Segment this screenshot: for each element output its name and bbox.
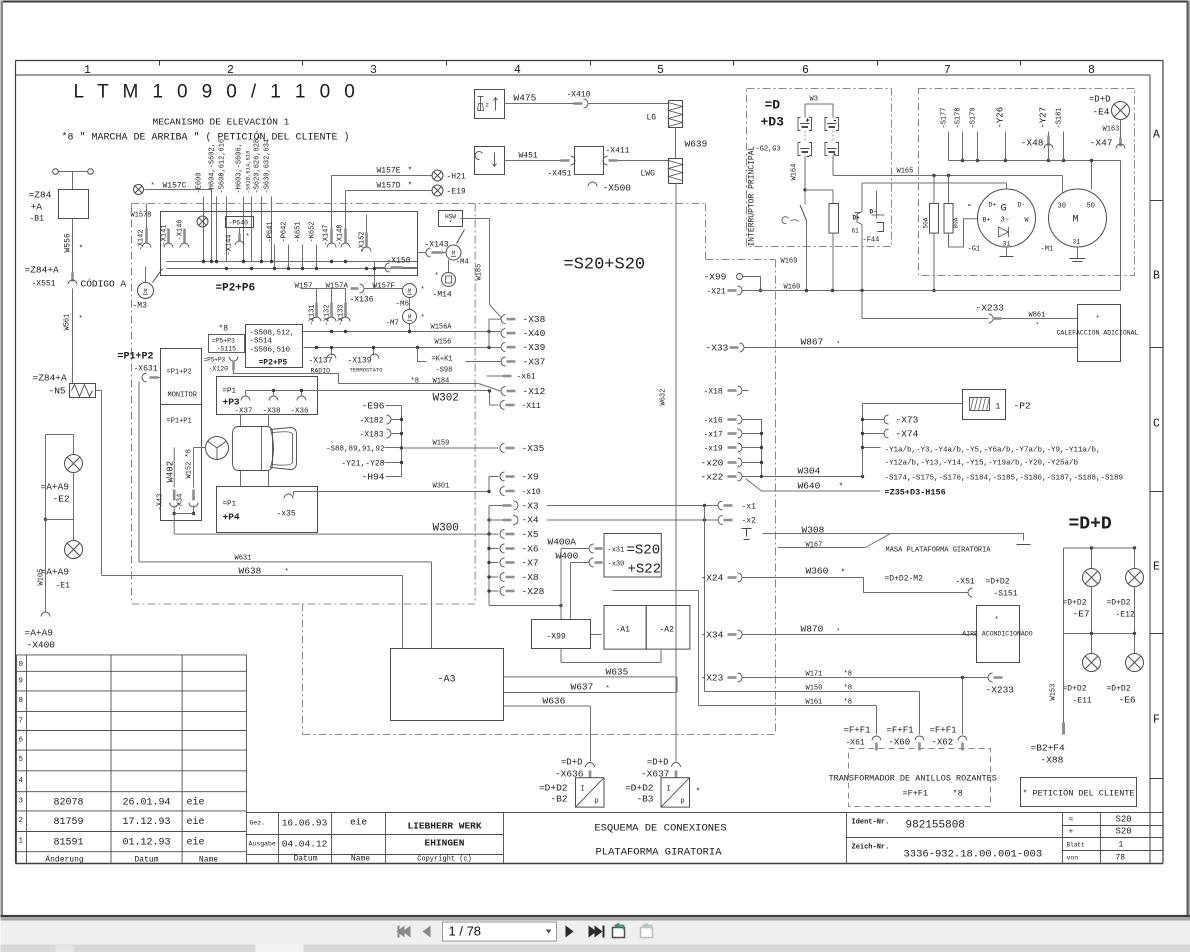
svg-text:-X33: -X33 <box>706 343 729 354</box>
svg-text:-X12: -X12 <box>523 386 546 397</box>
svg-text:W164: W164 <box>791 164 799 181</box>
svg-text:-x17: -x17 <box>704 431 723 440</box>
svg-text:2: 2 <box>19 817 24 825</box>
svg-text:MASA PLATAFORMA GIRATORIA: MASA PLATAFORMA GIRATORIA <box>886 547 992 555</box>
svg-text:-S178: -S178 <box>955 107 963 128</box>
svg-text:*: * <box>995 617 999 625</box>
svg-text:=A+A9: =A+A9 <box>41 482 70 493</box>
svg-text:-Y21,-Y28: -Y21,-Y28 <box>341 460 384 469</box>
svg-text:W302: W302 <box>433 393 459 405</box>
svg-text:eie: eie <box>350 817 367 828</box>
svg-text:-P2: -P2 <box>1014 401 1031 412</box>
svg-text:=Z84+A: =Z84+A <box>33 373 68 384</box>
svg-text:-N5: -N5 <box>49 386 66 397</box>
svg-text:-X11: -X11 <box>522 402 541 411</box>
svg-text:=A+A9: =A+A9 <box>25 628 54 639</box>
svg-text:-X39: -X39 <box>523 342 546 353</box>
svg-text:Zeich-Nr.: Zeich-Nr. <box>852 844 890 852</box>
svg-text:=P2+P5: =P2+P5 <box>259 359 288 368</box>
svg-text:W157: W157 <box>295 283 313 291</box>
svg-text:B+: B+ <box>983 217 991 224</box>
svg-text:-X47: -X47 <box>1090 138 1113 149</box>
svg-text:*: * <box>696 788 701 797</box>
svg-text:-X139: -X139 <box>348 357 372 366</box>
svg-text:*: * <box>421 315 425 323</box>
svg-text:-F44: -F44 <box>863 237 880 245</box>
svg-text:G: G <box>1001 204 1007 215</box>
svg-text:16.06.93: 16.06.93 <box>282 818 328 829</box>
svg-text:26.01.94: 26.01.94 <box>122 798 170 809</box>
svg-text:=P5+P3: =P5+P3 <box>204 357 226 364</box>
svg-text:*: * <box>408 167 413 176</box>
svg-text:=D+D: =D+D <box>647 758 669 768</box>
svg-text:0: 0 <box>19 661 24 669</box>
svg-text:Änderung: Änderung <box>45 856 84 865</box>
svg-text:=F+F1: =F+F1 <box>930 726 957 736</box>
svg-text:EHINGEN: EHINGEN <box>425 838 465 849</box>
svg-text:-X551: -X551 <box>32 280 56 289</box>
svg-text:=D+D2: =D+D2 <box>1107 685 1131 694</box>
svg-text:-X34: -X34 <box>177 494 185 511</box>
svg-text:3336-932.18.00.001-003: 3336-932.18.00.001-003 <box>904 849 1043 861</box>
svg-text:LWG: LWG <box>641 170 656 179</box>
svg-text:Blatt: Blatt <box>1067 842 1085 849</box>
svg-text:W105: W105 <box>38 569 46 586</box>
svg-text:=D+D: =D+D <box>561 758 583 768</box>
svg-text:-X233: -X233 <box>986 685 1015 696</box>
svg-text:*: * <box>79 245 84 254</box>
svg-text:982155808: 982155808 <box>906 820 965 832</box>
svg-text:-x35: -x35 <box>277 510 296 519</box>
svg-text:7: 7 <box>19 718 24 726</box>
svg-text:-E11: -E11 <box>1073 697 1092 706</box>
svg-text:-X51: -X51 <box>956 578 975 587</box>
svg-text:MONITOR: MONITOR <box>168 392 198 400</box>
svg-text:W157F: W157F <box>373 283 396 291</box>
svg-text:W475: W475 <box>514 93 537 104</box>
svg-text:82078: 82078 <box>53 798 83 809</box>
svg-text:-M3: -M3 <box>133 302 148 311</box>
svg-text:W185: W185 <box>476 264 484 281</box>
svg-text:-x10: -x10 <box>522 488 541 497</box>
svg-text:-: - <box>967 201 972 211</box>
svg-text:*: * <box>435 273 439 281</box>
svg-text:+: + <box>806 118 810 126</box>
svg-text:-G2,G3: -G2,G3 <box>756 146 781 154</box>
svg-text:-H603,-S606,: -H603,-S606, <box>236 143 244 193</box>
svg-text:*8: *8 <box>953 789 963 799</box>
svg-text:-P642: -P642 <box>281 221 289 242</box>
svg-text:80A: 80A <box>953 217 960 228</box>
svg-text:=P1+P2: =P1+P2 <box>167 369 192 377</box>
svg-text:2: 2 <box>227 64 234 77</box>
svg-text:*8 " MARCHA DE ARRIBA " ( PET: *8 " MARCHA DE ARRIBA " ( PETICIÓN DEL C… <box>62 130 350 144</box>
svg-text:-K651: -K651 <box>295 221 303 242</box>
svg-text:=: = <box>1069 816 1074 825</box>
svg-text:-M7: -M7 <box>386 320 400 328</box>
svg-text:-S88,89,91,92: -S88,89,91,92 <box>326 446 385 454</box>
svg-text:-x2: -x2 <box>742 517 757 526</box>
svg-text:-X23: -X23 <box>701 673 724 684</box>
svg-text:-X28: -X28 <box>522 586 545 597</box>
svg-text:W631: W631 <box>235 555 252 563</box>
svg-text:1: 1 <box>996 403 1001 412</box>
svg-text:-X7: -X7 <box>522 558 539 569</box>
svg-text:W156A: W156A <box>431 324 453 332</box>
svg-text:*: * <box>1036 322 1040 329</box>
svg-text:W451: W451 <box>519 152 538 161</box>
svg-text:-K652: -K652 <box>309 221 317 242</box>
svg-text:6: 6 <box>19 737 24 745</box>
svg-text:RADIO: RADIO <box>311 368 331 375</box>
svg-text:81591: 81591 <box>53 838 83 849</box>
svg-text:W360: W360 <box>806 566 829 577</box>
svg-text:*8: *8 <box>411 378 419 386</box>
svg-text:-Y1a/b,-Y3,-Y4a/b,-Y5,-Y6a/b,-: -Y1a/b,-Y3,-Y4a/b,-Y5,-Y6a/b,-Y7a/b,-Y9,… <box>885 447 1101 455</box>
svg-text:-H94: -H94 <box>362 472 385 483</box>
svg-text:W184: W184 <box>433 378 450 386</box>
svg-text:W: W <box>1025 217 1029 224</box>
svg-text:=F+F1: =F+F1 <box>887 726 914 736</box>
svg-text:-E4: -E4 <box>1092 107 1109 118</box>
svg-text:-S630,632,634: -S630,632,634 <box>264 139 272 194</box>
svg-text:-E1: -E1 <box>56 582 71 591</box>
svg-text:M: M <box>1073 215 1079 226</box>
svg-text:I: I <box>581 786 585 794</box>
svg-text:81759: 81759 <box>53 817 83 828</box>
svg-text:eie: eie <box>187 837 205 849</box>
svg-text:-A1: -A1 <box>616 626 631 635</box>
svg-text:-X120: -X120 <box>209 366 229 373</box>
svg-text:-X74: -X74 <box>896 429 919 440</box>
svg-text:-x19: -x19 <box>704 445 723 454</box>
svg-text:-S506,510: -S506,510 <box>250 347 291 355</box>
svg-text:-S508,512,: -S508,512, <box>250 330 295 338</box>
svg-text:-x22: -x22 <box>701 472 724 483</box>
svg-text:-X142: -X142 <box>138 229 146 250</box>
svg-text:-x20: -x20 <box>701 458 724 469</box>
svg-text:9: 9 <box>19 677 24 685</box>
svg-text:W301: W301 <box>433 483 450 491</box>
svg-text:-X411: -X411 <box>606 147 630 156</box>
svg-text:-E6: -E6 <box>1119 695 1136 706</box>
svg-text:01.12.93: 01.12.93 <box>122 838 170 849</box>
svg-text:*: * <box>841 569 846 578</box>
svg-text:=D+D: =D+D <box>1089 95 1111 105</box>
svg-text:Datum: Datum <box>293 855 317 864</box>
svg-text:-X500: -X500 <box>603 183 632 194</box>
svg-text:W637: W637 <box>571 682 594 693</box>
svg-text:30: 30 <box>1058 203 1066 211</box>
svg-text:04.04.12: 04.04.12 <box>282 839 328 850</box>
svg-text:-x31: -x31 <box>608 547 625 555</box>
svg-text:31: 31 <box>1003 241 1011 248</box>
svg-text:-P640: -P640 <box>229 220 249 227</box>
svg-text:W870: W870 <box>801 624 824 635</box>
svg-text:*: * <box>79 316 83 324</box>
svg-text:AIRE ACONDICIONADO: AIRE ACONDICIONADO <box>962 631 1032 638</box>
svg-text:W157E: W157E <box>377 167 401 176</box>
svg-text:-X38: -X38 <box>263 408 281 416</box>
svg-text:W400A: W400A <box>548 537 577 548</box>
svg-text:3: 3 <box>370 64 377 77</box>
svg-text:5: 5 <box>19 756 24 764</box>
svg-text:C: C <box>1153 418 1160 431</box>
svg-text:+P4: +P4 <box>223 512 240 523</box>
svg-text:-S181: -S181 <box>1056 107 1064 128</box>
svg-text:*: * <box>1023 790 1028 799</box>
svg-text:W165: W165 <box>897 168 914 176</box>
svg-text:61: 61 <box>852 228 860 235</box>
svg-text:=D+D2: =D+D2 <box>1107 599 1131 608</box>
svg-text:-S608,612,616: -S608,612,616 <box>219 139 227 194</box>
svg-text:-X410: -X410 <box>567 91 591 100</box>
svg-text:W561: W561 <box>64 314 72 331</box>
svg-text:=K+K1: =K+K1 <box>432 356 453 364</box>
svg-text:17.12.93: 17.12.93 <box>122 817 170 828</box>
svg-text:INTERRUPTOR PRINCIPAL: INTERRUPTOR PRINCIPAL <box>748 145 757 246</box>
svg-text:-X233: -X233 <box>976 303 1005 314</box>
svg-text:D-: D- <box>1018 202 1026 209</box>
svg-text:-M14: -M14 <box>433 291 452 300</box>
svg-text:E: E <box>1153 561 1160 574</box>
svg-text:Copyright (c): Copyright (c) <box>417 856 472 864</box>
svg-text:=D+D2: =D+D2 <box>1063 599 1087 608</box>
svg-text:W157B: W157B <box>131 212 152 220</box>
svg-text:D+: D+ <box>853 215 861 222</box>
svg-text:LIEBHERR WERK: LIEBHERR WERK <box>407 821 481 832</box>
svg-text:4: 4 <box>19 777 24 785</box>
svg-text:F: F <box>1153 714 1160 727</box>
svg-text:-S179: -S179 <box>970 107 978 128</box>
svg-text:W556: W556 <box>64 233 73 252</box>
svg-text:+A: +A <box>31 202 43 213</box>
svg-text:=D+D2: =D+D2 <box>625 783 654 794</box>
svg-text:W639: W639 <box>685 139 708 150</box>
svg-text:-x30: -x30 <box>608 561 625 569</box>
svg-text:=P2+P6: =P2+P6 <box>216 283 256 295</box>
svg-text:-X136: -X136 <box>350 296 374 305</box>
svg-text:W153: W153 <box>1050 684 1058 701</box>
svg-text:S20: S20 <box>1116 827 1132 837</box>
svg-text:-x16: -x16 <box>704 417 723 426</box>
svg-text:-: - <box>806 153 811 162</box>
svg-text:TERMOSTATO: TERMOSTATO <box>350 367 384 374</box>
svg-text:-S177: -S177 <box>941 107 949 128</box>
svg-text:=S20: =S20 <box>627 543 661 559</box>
svg-text:-Y27: -Y27 <box>1039 107 1049 129</box>
svg-text:-X99: -X99 <box>547 633 566 642</box>
svg-text:3~: 3~ <box>1001 217 1009 225</box>
svg-text:-Y12a/b,-Y13,-Y14,-Y15,-Y19a/b: -Y12a/b,-Y13,-Y14,-Y15,-Y19a/b,-Y20,-Y25… <box>885 460 1079 468</box>
svg-text:*: * <box>839 483 844 492</box>
svg-text:L T M 1 0 9 0 / 1 1 0 0: L T M 1 0 9 0 / 1 1 0 0 <box>74 82 360 103</box>
svg-text:W636: W636 <box>543 696 566 707</box>
svg-text:-X183: -X183 <box>359 431 383 440</box>
svg-text:=F+F1: =F+F1 <box>903 789 929 799</box>
svg-text:S20: S20 <box>1116 815 1132 825</box>
svg-text:-X3: -X3 <box>522 501 539 512</box>
svg-text:-X5: -X5 <box>522 529 539 540</box>
svg-text:*: * <box>837 341 841 348</box>
svg-text:+S22: +S22 <box>628 562 662 578</box>
svg-text:-X147: -X147 <box>323 224 331 245</box>
svg-text:-E19: -E19 <box>447 188 466 197</box>
svg-text:-X38: -X38 <box>523 314 546 325</box>
svg-text:W169: W169 <box>781 258 798 266</box>
svg-text:p: p <box>681 798 685 806</box>
svg-text:-E2: -E2 <box>53 494 70 505</box>
svg-text:Ausgabe: Ausgabe <box>249 841 276 848</box>
svg-text:1: 1 <box>84 64 91 77</box>
svg-text:=D+D2-M2: =D+D2-M2 <box>885 575 924 584</box>
svg-text:eie: eie <box>187 797 205 809</box>
svg-text:-X18: -X18 <box>704 388 723 397</box>
svg-text:-X9: -X9 <box>522 472 539 483</box>
svg-text:*: * <box>837 628 841 635</box>
svg-text:-: - <box>833 117 838 126</box>
svg-text:-X400: -X400 <box>27 640 56 651</box>
svg-text:D+: D+ <box>989 202 997 209</box>
svg-text:W867: W867 <box>801 337 824 348</box>
svg-text:-E96: -E96 <box>362 401 385 412</box>
svg-text:-X451: -X451 <box>548 170 572 179</box>
svg-text:CALEFACCIÓN ADICIONAL: CALEFACCIÓN ADICIONAL <box>1057 328 1139 337</box>
svg-text:-B3: -B3 <box>636 794 653 805</box>
svg-text:-X37: -X37 <box>523 357 546 368</box>
svg-text:-X40: -X40 <box>523 328 546 339</box>
svg-text:=Z35+D3-H156: =Z35+D3-H156 <box>885 488 946 498</box>
svg-text:von: von <box>1067 855 1079 862</box>
svg-text:-X88: -X88 <box>1041 755 1064 766</box>
svg-text:B: B <box>1153 270 1160 283</box>
svg-text:-E7: -E7 <box>1073 609 1090 620</box>
svg-text:=D+D2: =D+D2 <box>1063 685 1087 694</box>
svg-text:-E12: -E12 <box>1116 611 1135 620</box>
svg-text:-B1: -B1 <box>30 215 45 224</box>
svg-text:-X182: -X182 <box>359 417 383 426</box>
svg-text:31: 31 <box>1073 239 1081 246</box>
svg-text:-H604,-S602,: -H604,-S602, <box>209 143 217 193</box>
svg-text:-H21: -H21 <box>447 173 466 182</box>
svg-text:-X43: -X43 <box>157 494 165 511</box>
svg-text:-Y26: -Y26 <box>996 107 1006 129</box>
svg-text:W400: W400 <box>556 551 579 562</box>
svg-text:+: + <box>1069 828 1074 837</box>
svg-text:-X61: -X61 <box>846 739 865 748</box>
svg-text:=D+D2: =D+D2 <box>539 783 568 794</box>
svg-text:ESQUEMA DE CONEXIONES: ESQUEMA DE CONEXIONES <box>594 823 726 835</box>
svg-text:1: 1 <box>1119 841 1124 850</box>
svg-text:-A3: -A3 <box>438 675 456 686</box>
svg-text:-B2: -B2 <box>550 794 567 805</box>
svg-text:5: 5 <box>657 64 664 77</box>
svg-text:W3: W3 <box>810 96 818 104</box>
svg-text:LG: LG <box>647 114 657 123</box>
svg-text:-X8: -X8 <box>522 572 539 583</box>
svg-text:=P5+P3: =P5+P3 <box>212 338 236 345</box>
svg-text:=D: =D <box>765 98 781 113</box>
svg-text:W640: W640 <box>798 481 821 492</box>
svg-text:*: * <box>1096 316 1100 324</box>
svg-text:PETICIÓN DEL CLIENTE: PETICIÓN DEL CLIENTE <box>1033 788 1135 799</box>
svg-text:-X73: -X73 <box>896 415 919 426</box>
svg-text:-X631: -X631 <box>134 365 158 374</box>
svg-text:W163: W163 <box>1103 126 1120 134</box>
svg-text:-X4: -X4 <box>522 515 539 526</box>
svg-text:-x61: -x61 <box>517 373 536 382</box>
svg-text:-X36: -X36 <box>291 408 310 416</box>
svg-text:p: p <box>595 798 599 806</box>
svg-text:Gez.: Gez. <box>250 820 266 827</box>
svg-text:1 / 78: 1 / 78 <box>449 924 482 939</box>
svg-text:-X34: -X34 <box>701 630 724 641</box>
svg-text:Name: Name <box>199 856 218 865</box>
svg-text:W638: W638 <box>239 566 262 577</box>
svg-text:7: 7 <box>944 64 951 77</box>
svg-text:-X137: -X137 <box>309 357 333 366</box>
svg-text:eie: eie <box>187 816 205 828</box>
svg-text:*8: *8 <box>219 325 229 334</box>
svg-text:D-: D- <box>870 209 877 216</box>
svg-text:=S20+S20: =S20+S20 <box>564 256 646 275</box>
svg-text:-E600: -E600 <box>196 172 204 193</box>
svg-text:=P1: =P1 <box>223 388 237 396</box>
svg-text:PLATAFORMA GIRATORIA: PLATAFORMA GIRATORIA <box>595 847 722 859</box>
svg-text:W159: W159 <box>433 440 450 448</box>
svg-text:1: 1 <box>19 838 24 846</box>
svg-text:8: 8 <box>1088 64 1095 77</box>
svg-text:50: 50 <box>1087 203 1095 211</box>
svg-text:-X37: -X37 <box>235 408 253 416</box>
svg-text:W156: W156 <box>435 339 452 347</box>
svg-text:+D3: +D3 <box>761 115 785 130</box>
svg-text:=Z84: =Z84 <box>29 190 52 201</box>
svg-text:3: 3 <box>19 798 24 806</box>
svg-text:=P1: =P1 <box>223 501 237 509</box>
svg-text:W304: W304 <box>798 466 821 477</box>
svg-text:-X6: -X6 <box>522 544 539 555</box>
svg-text:*: * <box>449 220 453 227</box>
svg-text:=Z84+A: =Z84+A <box>25 265 60 276</box>
svg-text:-M1: -M1 <box>1041 246 1054 254</box>
svg-text:MECANISMO DE ELEVACIÓN 1: MECANISMO DE ELEVACIÓN 1 <box>153 117 290 128</box>
svg-text:=P1+P2: =P1+P2 <box>118 352 154 363</box>
svg-text:78: 78 <box>1116 854 1126 863</box>
svg-text:=P1+P1: =P1+P1 <box>167 418 192 426</box>
svg-text:-A2: -A2 <box>660 626 675 635</box>
svg-text:TRANSFORMADOR DE ANILLOS ROZAN: TRANSFORMADOR DE ANILLOS ROZANTES <box>829 774 997 784</box>
svg-text:*: * <box>421 287 425 295</box>
svg-text:=D+D: =D+D <box>1069 515 1112 535</box>
svg-text:-X24: -X24 <box>701 573 724 584</box>
svg-text:-P641: -P641 <box>267 221 275 242</box>
svg-text:2: 2 <box>486 102 489 109</box>
svg-text:-X62: -X62 <box>932 738 954 748</box>
svg-text:-S115: -S115 <box>217 346 237 353</box>
svg-text:-x1: -x1 <box>742 503 757 512</box>
svg-text:W300: W300 <box>433 523 459 535</box>
svg-text:-X99: -X99 <box>704 272 727 283</box>
svg-text:W152 *8: W152 *8 <box>186 449 194 478</box>
svg-text:-M6: -M6 <box>396 301 410 309</box>
svg-text:4: 4 <box>514 64 521 77</box>
svg-text:=D+D2: =D+D2 <box>986 578 1010 587</box>
svg-text:50A: 50A <box>923 217 930 228</box>
svg-text:-X144: -X144 <box>226 234 234 255</box>
svg-text:+P3: +P3 <box>223 397 240 408</box>
svg-text:A: A <box>1153 129 1160 142</box>
